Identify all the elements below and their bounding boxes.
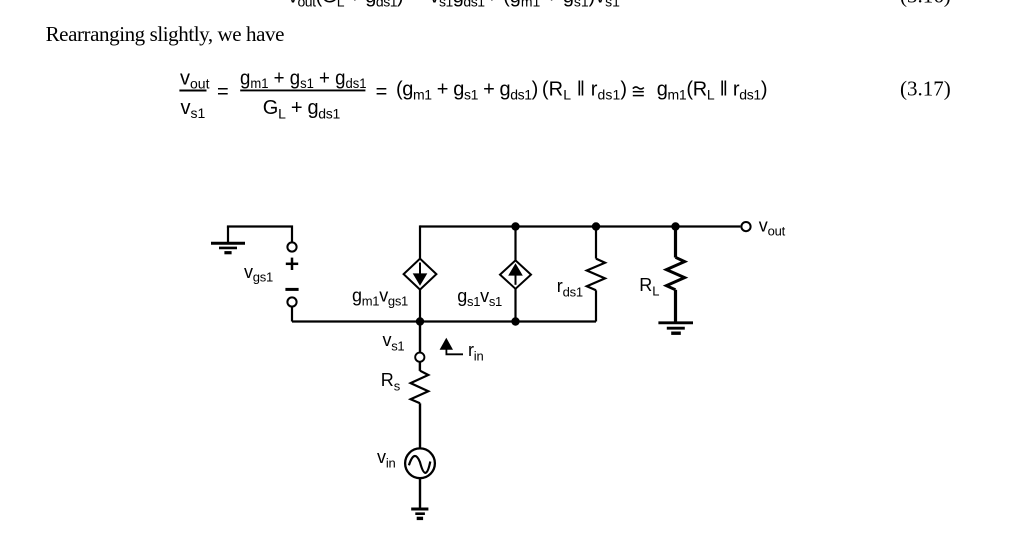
ground GND1 (top left)	[211, 227, 245, 253]
plus sign	[286, 258, 298, 270]
svg-text:=: =	[217, 81, 229, 103]
resistor rds1	[587, 259, 605, 291]
wire: gm1vgs1 bottom lead	[419, 290, 421, 322]
wire: gm1vgs1 top lead	[419, 225, 421, 258]
svg-text:(RL ‖ rds1): (RL ‖ rds1)	[542, 78, 627, 102]
ground GND3 (below vin)	[411, 509, 428, 518]
svg-text:=: =	[412, 0, 424, 8]
svg-text:vgs1: vgs1	[244, 262, 273, 285]
wire: bottom rail	[292, 320, 596, 322]
terminal: vgs1 + (open circle)	[287, 242, 296, 251]
svg-text:vs1: vs1	[181, 97, 206, 121]
resistor RL	[666, 257, 684, 290]
wire: GND1 to vgs1 port top	[227, 227, 292, 243]
node dot: vs1 at gm1 branch	[416, 317, 424, 325]
wire: vin to GND3	[419, 478, 421, 508]
svg-text:gm1vgs1: gm1vgs1	[352, 286, 408, 309]
resistor Rs	[411, 371, 429, 404]
svg-text:RL: RL	[639, 275, 659, 299]
wire: Rs to vin source	[419, 403, 421, 448]
node dot: top rail at rds1 branch	[592, 222, 600, 230]
source vin (sine)	[405, 448, 435, 478]
svg-text:vout(GL + gds1): vout(GL + gds1)	[288, 0, 403, 10]
wire: RL top lead	[674, 227, 677, 258]
wire: rin terminal to Rs	[419, 362, 421, 371]
svg-text:(3.16): (3.16)	[900, 0, 951, 8]
current source gm1vgs1 (diamond, arrow down)	[404, 259, 437, 290]
equation 3.17: fraction bar 2	[240, 89, 365, 91]
wire: gs1vs1 top lead	[514, 227, 516, 261]
wire: vgs1 port bottom lead	[291, 307, 293, 322]
svg-text:vout: vout	[759, 215, 786, 238]
svg-text:vs1: vs1	[383, 330, 405, 354]
svg-text:+ (gm1 + gs1)vs1: + (gm1 + gs1)vs1	[486, 0, 620, 10]
equation 3.16 (cut off at top): v_out(G_L + g_ds1) term	[288, 0, 403, 10]
svg-text:=: =	[376, 81, 388, 103]
terminal: vout (open circle)	[741, 222, 750, 231]
svg-text:Rearranging slightly, we have: Rearranging slightly, we have	[46, 22, 284, 46]
wire: vs1 node to rin terminal	[419, 322, 421, 353]
svg-text:GL + gds1: GL + gds1	[263, 97, 341, 121]
svg-text:Rs: Rs	[381, 370, 401, 394]
node dot: bottom rail at gs1 branch	[511, 317, 519, 325]
svg-text:(gm1 + gs1 + gds1): (gm1 + gs1 + gds1)	[396, 78, 538, 102]
node dot: top rail at gs1 branch	[511, 222, 519, 230]
wire: rds1 bottom lead	[595, 290, 597, 321]
svg-text:gm1(RL ‖ rds1): gm1(RL ‖ rds1)	[657, 78, 768, 102]
svg-text:gm1 + gs1 + gds1: gm1 + gs1 + gds1	[240, 68, 366, 91]
terminal: rin (open circle)	[415, 353, 424, 362]
terminal: vgs1 - (open circle)	[287, 297, 296, 306]
svg-text:gs1vs1: gs1vs1	[457, 286, 502, 309]
equation 3.17: fraction bar 1	[179, 90, 206, 92]
current source gs1vs1 (diamond, arrow up)	[500, 260, 531, 288]
wire: RL bottom lead	[674, 290, 677, 322]
wire: gs1vs1 bottom lead	[514, 289, 516, 322]
svg-text:vout: vout	[180, 68, 210, 92]
svg-text:rin: rin	[468, 340, 484, 363]
svg-text:rds1: rds1	[557, 276, 583, 300]
svg-text:vs1gds1: vs1gds1	[430, 0, 486, 10]
ground GND2 (below RL)	[658, 323, 693, 333]
equation 3.17: approximately-equal sign	[633, 87, 644, 96]
node dot: top rail at RL branch	[671, 222, 679, 230]
svg-text:(3.17): (3.17)	[900, 76, 951, 100]
svg-text:vin: vin	[377, 447, 396, 470]
minus sign	[285, 288, 298, 291]
wire: top rail	[420, 225, 740, 227]
wire: rds1 top lead	[595, 227, 597, 259]
rin arrow	[440, 338, 463, 355]
